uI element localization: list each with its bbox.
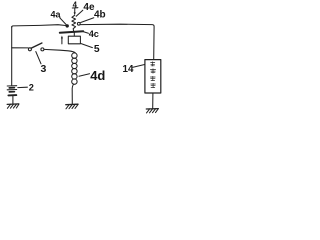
- switch 3 : left contact: [28, 48, 31, 51]
- node : spark gap left electrode dot: [66, 24, 69, 27]
- wire : pointer from label 14 to box: [133, 65, 145, 68]
- wire : pointer from plate to label 4c: [84, 32, 89, 34]
- switch 3 : right contact: [41, 48, 44, 51]
- wire : pointer from battery to label 2: [18, 86, 28, 88]
- glyph blob 1 inside box 14: [151, 62, 155, 66]
- wire : pointer from box 5 to label 5: [81, 44, 93, 48]
- wire : from left bus to switch: [12, 47, 29, 49]
- box 14 : impedance box: [145, 60, 161, 93]
- wire : box 14 to ground: [152, 93, 154, 108]
- ground : left ground symbol: [7, 103, 19, 106]
- wire : left vertical bus: [11, 27, 13, 86]
- svg-text:2: 2: [29, 82, 34, 92]
- svg-text:4a: 4a: [51, 9, 62, 19]
- wire : battery to ground: [12, 96, 14, 104]
- battery 2 : plate short thick: [9, 91, 14, 93]
- coil 4d : loop 4: [72, 69, 77, 74]
- coil 4d : loop 1: [72, 53, 77, 58]
- ground : right ground symbol: [146, 108, 158, 110]
- switch 3 : blade: [32, 43, 42, 48]
- wire : pointer from label 4e to spring top: [76, 10, 83, 16]
- node : spark gap right electrode open circle: [77, 22, 80, 25]
- glyph blob 3 inside box 14: [150, 76, 155, 80]
- wire : top-left horizontal to spark gap left electrode: [12, 25, 66, 28]
- battery 2 : plate long: [7, 89, 17, 91]
- wire : underline below label 4: [72, 7, 78, 9]
- wire : switch to coil top: [44, 49, 75, 53]
- svg-text:5: 5: [94, 44, 100, 55]
- coil 4d : loop 6: [72, 79, 77, 84]
- svg-text:4d: 4d: [90, 68, 105, 83]
- wire : pointer from coil to label 4d: [79, 74, 90, 77]
- spring 4e : zigzag between electrodes: [72, 15, 76, 31]
- wire : stem plate to piezo box: [73, 32, 75, 36]
- ground : middle ground symbol: [66, 103, 78, 106]
- glyph blob 2 inside box 14: [150, 69, 155, 74]
- battery 2 : plate long: [7, 85, 17, 87]
- battery 2 : bottom thick bar: [8, 94, 16, 96]
- battery 2 : plate short thick: [9, 87, 14, 89]
- coil 4d : loop 3: [72, 63, 77, 68]
- box 5 : piezo element: [68, 36, 80, 44]
- plate 4c : horizontal bar: [60, 31, 83, 32]
- wire : pointer from switch to label 3: [36, 52, 41, 64]
- svg-text:14: 14: [123, 64, 134, 75]
- arrow : small up arrow left of box 5: [61, 38, 63, 44]
- svg-text:4b: 4b: [94, 9, 106, 20]
- coil 4d : loop 5: [72, 74, 77, 79]
- wire : pointer from label 4b to right electrode: [81, 18, 94, 23]
- wire : coil bottom to ground: [72, 84, 73, 104]
- coil 4d : loop 2: [72, 58, 77, 63]
- wire : pointer from label 4a to left electrode: [60, 18, 66, 25]
- svg-text:4: 4: [73, 0, 78, 9]
- svg-text:4c: 4c: [89, 29, 99, 39]
- wire : top-right horizontal to corner and down to box 14: [80, 24, 154, 59]
- glyph blob 4 inside box 14: [151, 83, 156, 87]
- svg-text:3: 3: [41, 63, 47, 75]
- arrow : reference arrow under label 4: [74, 8, 76, 13]
